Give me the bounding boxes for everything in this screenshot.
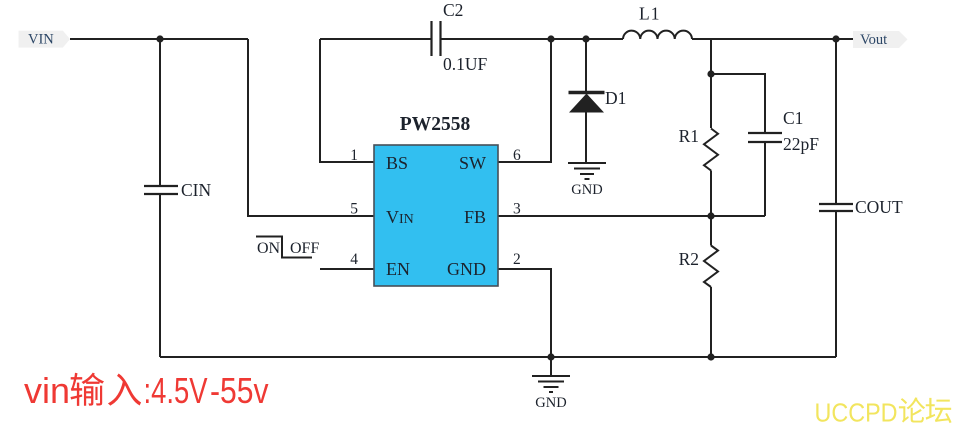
svg-text:GND: GND bbox=[447, 259, 486, 279]
wire VIN-to-pin5 (down then right) bbox=[248, 39, 374, 216]
annotation red: CJK ru bbox=[108, 374, 141, 406]
svg-text:D1: D1 bbox=[605, 88, 626, 108]
wire VIN top horizontal bbox=[70, 38, 248, 40]
resistor R2 zigzag bbox=[704, 246, 718, 288]
svg-text:BS: BS bbox=[386, 153, 408, 173]
watermark CJK tan bbox=[926, 398, 952, 423]
op-amp U1 PW2558 IC body bbox=[374, 145, 498, 286]
wire BS pin1 (left then up) bbox=[320, 39, 374, 162]
wire C1 branch top bbox=[711, 74, 765, 133]
wire GND pin2 (right then down) bbox=[498, 269, 551, 357]
svg-text:R2: R2 bbox=[679, 249, 699, 269]
svg-text:3: 3 bbox=[513, 201, 521, 218]
svg-text:VIN: VIN bbox=[28, 32, 54, 48]
junction node FB bbox=[707, 212, 714, 219]
wire SW pin6 (right then up) bbox=[498, 39, 551, 162]
svg-text:PW2558: PW2558 bbox=[400, 114, 471, 135]
watermark CJK lun bbox=[899, 397, 925, 422]
svg-text:GND: GND bbox=[571, 182, 602, 198]
wire C2 right segment to L1 bbox=[440, 38, 623, 40]
net label Vout flag bbox=[853, 31, 908, 48]
ground symbol for D1 bbox=[568, 163, 606, 179]
ground symbol at pin2 bbox=[532, 357, 570, 392]
svg-text:C2: C2 bbox=[443, 0, 463, 20]
svg-text:COUT: COUT bbox=[855, 197, 903, 217]
wire R1 bottom to FB node bbox=[710, 171, 712, 217]
svg-text:GND: GND bbox=[535, 395, 566, 411]
wire R2 top segment bbox=[710, 216, 712, 246]
wire COUT vertical upper bbox=[835, 39, 837, 204]
annotation red: CJK shu bbox=[71, 373, 105, 406]
svg-text:FB: FB bbox=[464, 207, 486, 227]
wire CIN vertical upper bbox=[159, 39, 161, 186]
svg-text:-55v: -55v bbox=[210, 370, 269, 411]
inductor L1 bbox=[623, 31, 692, 39]
junction node pin2 ground bbox=[547, 353, 554, 360]
svg-text:ON: ON bbox=[257, 240, 281, 257]
svg-text:4: 4 bbox=[350, 251, 358, 268]
wire R2 bottom segment bbox=[710, 287, 712, 357]
capacitor C2 plates bbox=[432, 21, 441, 56]
resistor R1 zigzag bbox=[704, 129, 718, 171]
svg-text:0.1UF: 0.1UF bbox=[443, 54, 488, 74]
svg-text:SW: SW bbox=[459, 153, 486, 173]
diode D1 cathode bar bbox=[569, 91, 605, 94]
svg-text::4.5V: :4.5V bbox=[144, 370, 208, 411]
junction node R2 bottom bbox=[707, 353, 714, 360]
wire FB pin3 bbox=[498, 215, 765, 217]
svg-text:C1: C1 bbox=[783, 108, 803, 128]
wire D1 cathode to ground bbox=[585, 113, 587, 164]
svg-text:R1: R1 bbox=[679, 126, 699, 146]
diode D1 triangle bbox=[569, 94, 604, 113]
wire EN pin4 bbox=[320, 268, 374, 270]
svg-text:UCCPD: UCCPD bbox=[815, 398, 898, 426]
svg-text:OFF: OFF bbox=[290, 240, 319, 257]
junction node D1 top bbox=[582, 35, 589, 42]
switch step symbol ON/OFF bbox=[256, 237, 312, 258]
capacitor CIN plates bbox=[144, 186, 178, 194]
wire COUT vertical lower bbox=[835, 211, 837, 357]
wire L1 output to Vout bbox=[692, 38, 853, 40]
svg-text:5: 5 bbox=[350, 201, 358, 218]
capacitor C1 plates bbox=[748, 133, 782, 142]
junction node at VIN/CIN bbox=[156, 35, 163, 42]
svg-text:EN: EN bbox=[386, 259, 410, 279]
svg-text:vin: vin bbox=[24, 370, 70, 411]
wire bottom ground rail bbox=[160, 356, 836, 358]
net label VIN flag bbox=[19, 31, 70, 48]
svg-text:L1: L1 bbox=[639, 4, 660, 24]
wire C2 left segment bbox=[320, 38, 431, 40]
junction node R1/C1 top bbox=[707, 70, 714, 77]
junction node SW/C2 bbox=[547, 35, 554, 42]
wire C1 branch bottom bbox=[764, 142, 766, 216]
svg-text:CIN: CIN bbox=[181, 180, 212, 200]
svg-text:1: 1 bbox=[350, 147, 358, 164]
svg-text:6: 6 bbox=[513, 147, 521, 164]
svg-text:Vout: Vout bbox=[860, 32, 887, 48]
wire R1 top segment bbox=[710, 39, 712, 128]
junction node Vout/COUT bbox=[832, 35, 839, 42]
wire D1 anode drop bbox=[585, 39, 587, 92]
capacitor COUT plates bbox=[819, 204, 853, 211]
wire CIN vertical lower bbox=[159, 194, 161, 357]
svg-text:22pF: 22pF bbox=[783, 134, 819, 154]
svg-text:2: 2 bbox=[513, 251, 521, 268]
